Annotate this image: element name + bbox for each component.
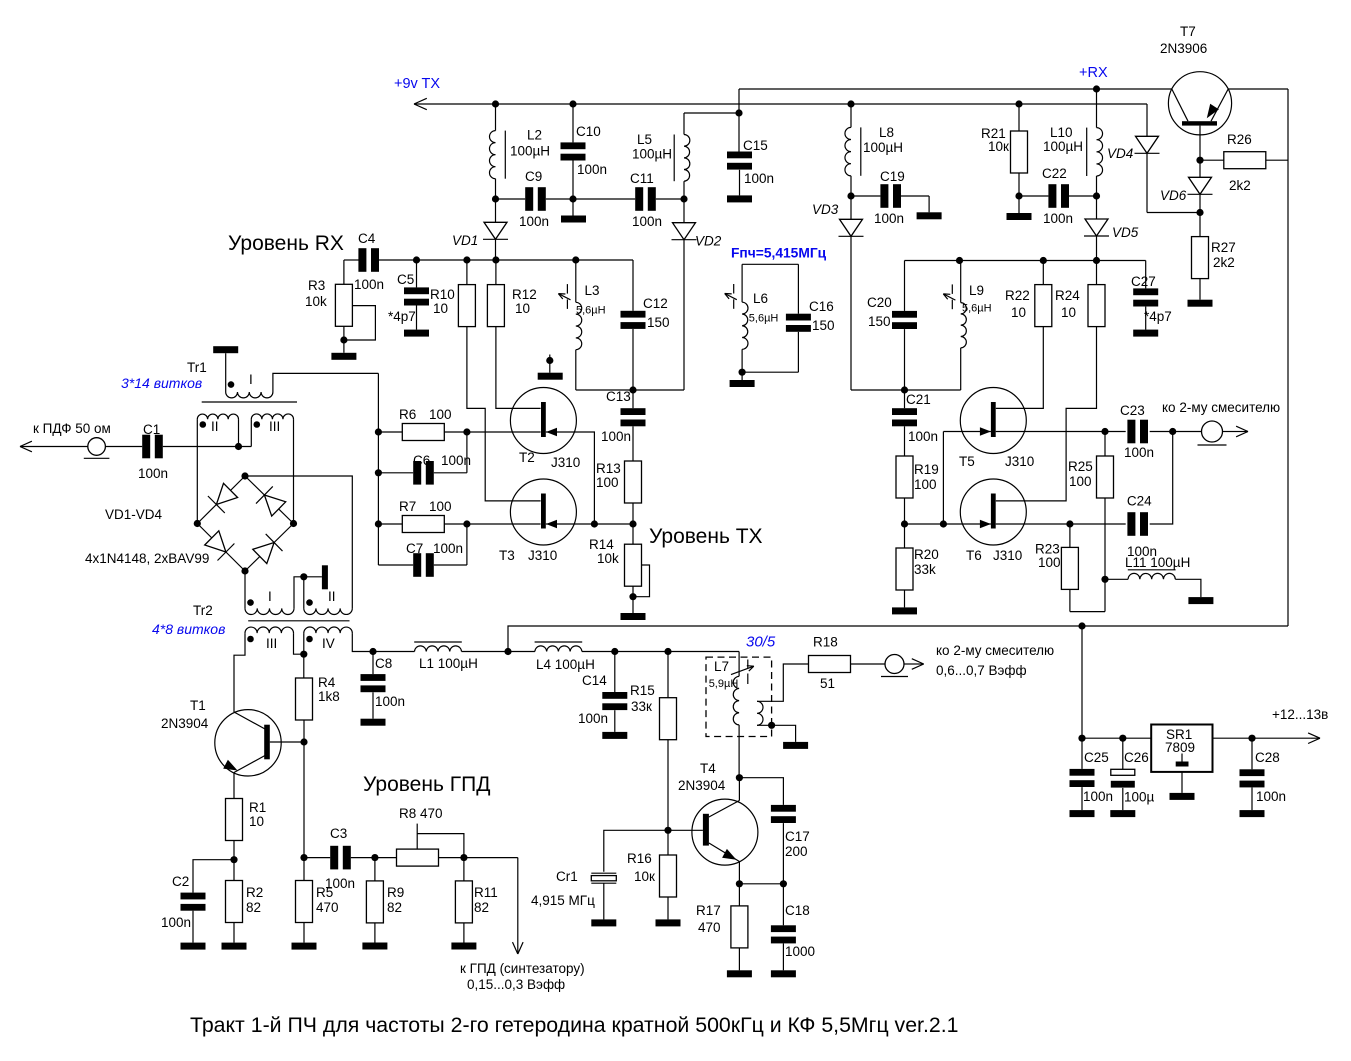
diode ring sides	[197, 476, 245, 524]
resistor R7	[402, 516, 444, 533]
svg-text:100n: 100n	[1256, 789, 1286, 804]
wire +12V to SR1 input	[1081, 626, 1083, 738]
capacitor C19	[851, 195, 880, 197]
resistor R9	[374, 858, 376, 881]
svg-text:R22: R22	[1005, 288, 1030, 303]
resistor R1	[233, 773, 235, 799]
junction L6 ground	[739, 369, 746, 376]
svg-text:150: 150	[868, 314, 891, 329]
svg-text:100n: 100n	[375, 694, 405, 709]
svg-text:C8: C8	[375, 656, 392, 671]
svg-text:C12: C12	[643, 296, 668, 311]
svg-text:33k: 33k	[914, 562, 936, 577]
capacitor C6	[466, 432, 468, 473]
junction C11/L5/VD2	[680, 195, 687, 202]
wire R7 line y=524	[378, 523, 540, 525]
svg-text:R26: R26	[1227, 132, 1252, 147]
svg-text:L7: L7	[714, 659, 729, 674]
svg-text:C7: C7	[406, 541, 423, 556]
wire +9v TX rail with left arrow	[414, 103, 1147, 105]
wire T3 gate line to R13/R14 node	[546, 523, 633, 525]
junction +12V rail / SR1	[1078, 622, 1085, 629]
resistor R27	[1199, 213, 1201, 237]
inductor L4	[508, 651, 535, 653]
svg-text:82: 82	[246, 900, 261, 915]
svg-text:IV: IV	[322, 636, 335, 651]
transformer Tr2 winding IV	[304, 627, 353, 633]
capacitor C3	[304, 857, 330, 859]
svg-text:100n: 100n	[354, 277, 384, 292]
svg-text:VD1: VD1	[452, 233, 478, 248]
capacitor C27	[1145, 261, 1147, 289]
svg-text:I: I	[268, 589, 272, 604]
ring diode top-left	[216, 483, 237, 504]
svg-text:R12: R12	[512, 287, 537, 302]
capacitor C1	[142, 435, 150, 459]
capacitor C26 electrolytic	[1122, 738, 1124, 769]
svg-text:Tr2: Tr2	[193, 603, 213, 618]
svg-text:R25: R25	[1068, 459, 1093, 474]
svg-text:4x1N4148, 2xBAV99: 4x1N4148, 2xBAV99	[85, 551, 209, 566]
svg-text:T4: T4	[700, 761, 716, 776]
svg-text:R19: R19	[914, 462, 939, 477]
inductor L5	[683, 113, 685, 135]
svg-text:C25: C25	[1084, 750, 1109, 765]
svg-text:1000: 1000	[785, 944, 815, 959]
diode VD6	[1199, 160, 1201, 177]
resistor R19	[896, 456, 913, 498]
svg-text:T2: T2	[519, 450, 535, 465]
inductor L7 secondary	[757, 701, 763, 725]
junction C10 ground node	[569, 195, 576, 202]
svg-text:10k: 10k	[597, 551, 619, 566]
junction T4 base / R16	[664, 827, 671, 834]
capacitor C17	[771, 805, 796, 812]
svg-text:470: 470	[698, 920, 721, 935]
capacitor C11	[656, 198, 684, 200]
svg-text:10: 10	[249, 814, 264, 829]
svg-text:III: III	[266, 636, 277, 651]
svg-text:VD2: VD2	[695, 234, 722, 249]
svg-text:T5: T5	[959, 454, 975, 469]
svg-text:100: 100	[429, 407, 452, 422]
svg-text:Уровень TX: Уровень TX	[649, 525, 763, 548]
svg-text:2N3904: 2N3904	[161, 716, 209, 731]
transistor T2 J310	[510, 388, 576, 454]
junction R25	[1101, 428, 1108, 435]
svg-text:R14: R14	[589, 537, 614, 552]
svg-text:C17: C17	[785, 829, 810, 844]
svg-text:150: 150	[812, 318, 835, 333]
svg-text:100: 100	[596, 475, 619, 490]
svg-text:1k8: 1k8	[318, 689, 340, 704]
junction R11	[460, 854, 467, 861]
svg-text:7809: 7809	[1165, 740, 1195, 755]
svg-text:30/5: 30/5	[746, 634, 776, 651]
wire VD3 to tank bottom	[851, 389, 904, 391]
svg-text:100n: 100n	[1124, 445, 1154, 460]
capacitor C9	[496, 198, 526, 200]
svg-text:J310: J310	[551, 455, 580, 470]
junction VD6/VD4/R27	[1196, 209, 1203, 216]
svg-text:100n: 100n	[577, 162, 607, 177]
svg-text:R6: R6	[399, 407, 416, 422]
wire tank bottom line	[576, 389, 684, 391]
capacitor C23	[1127, 420, 1135, 444]
ground under L6 tank	[741, 372, 743, 380]
svg-text:Cr1: Cr1	[556, 869, 578, 884]
wire R4 node down to C3/R5	[303, 742, 305, 858]
transformer Tr1 core	[202, 401, 297, 403]
transistor T7 2N3906	[1168, 72, 1231, 135]
capacitor C24	[1127, 512, 1135, 536]
svg-text:100n: 100n	[744, 171, 774, 186]
svg-text:III: III	[269, 419, 280, 434]
transistor T5 J310	[960, 388, 1026, 454]
svg-text:5,9µH: 5,9µH	[709, 678, 739, 690]
svg-text:100n: 100n	[161, 915, 191, 930]
svg-text:10к: 10к	[988, 139, 1009, 154]
wire ring bottom to Tr2 winding I	[244, 571, 246, 608]
wire collector to C17	[739, 778, 783, 805]
svg-text:100µH: 100µH	[510, 144, 550, 159]
diode VD1	[495, 199, 497, 222]
svg-text:J310: J310	[1005, 454, 1034, 469]
svg-text:+12...13в: +12...13в	[1272, 707, 1328, 722]
svg-text:C4: C4	[358, 231, 376, 246]
capacitor C28	[1251, 738, 1253, 769]
junction T4 collector	[736, 774, 743, 781]
svg-text:L5: L5	[637, 132, 652, 147]
diode VD5	[1096, 196, 1098, 219]
svg-text:+RX: +RX	[1079, 65, 1108, 81]
transistor T3 J310	[510, 479, 576, 545]
svg-text:470: 470	[316, 900, 339, 915]
inductor L8	[850, 104, 852, 127]
resistor R6	[402, 424, 444, 441]
svg-text:100: 100	[914, 477, 937, 492]
ring diode right-top	[264, 495, 285, 516]
svg-text:R27: R27	[1211, 240, 1236, 255]
svg-text:R16: R16	[627, 851, 652, 866]
svg-text:J310: J310	[528, 548, 557, 563]
wire SR1 output	[1213, 737, 1312, 739]
inductor L9 tunable	[960, 261, 962, 303]
junction R19/R20/T6 gate	[901, 520, 908, 527]
inductor L6 tunable	[741, 264, 743, 302]
svg-text:4*8 витков: 4*8 витков	[152, 621, 225, 637]
junction T7 base/R26	[1196, 157, 1203, 164]
wire L5 top to C15 node	[684, 112, 739, 114]
svg-text:VD5: VD5	[1112, 225, 1139, 240]
svg-text:Fпч=5,415МГц: Fпч=5,415МГц	[731, 246, 827, 261]
svg-text:R9: R9	[387, 885, 404, 900]
resistor R3 trimmer	[343, 260, 345, 284]
svg-text:R2: R2	[246, 885, 263, 900]
wire emitter to C18 node	[739, 883, 783, 885]
resistor R20	[904, 524, 906, 548]
svg-text:C11: C11	[630, 171, 654, 186]
svg-text:R4: R4	[318, 675, 336, 690]
svg-text:100: 100	[429, 499, 452, 514]
resistor R13	[625, 461, 642, 503]
junction R1/R2/C2	[230, 856, 237, 863]
resistor R25	[1104, 432, 1106, 457]
junction T1 base / R4	[300, 738, 307, 745]
resistor R14 trimmer	[625, 544, 642, 586]
svg-text:51: 51	[820, 676, 835, 691]
svg-text:100n: 100n	[1043, 211, 1073, 226]
svg-text:100n: 100n	[1083, 789, 1113, 804]
resistor R10	[466, 260, 468, 285]
junction C21 node	[901, 386, 908, 393]
svg-text:100µH: 100µH	[1043, 139, 1083, 154]
junction R15	[664, 648, 671, 655]
junction C25	[1078, 735, 1085, 742]
svg-text:100µ: 100µ	[1124, 790, 1155, 805]
svg-text:VD1-VD4: VD1-VD4	[105, 507, 163, 522]
svg-text:C2: C2	[172, 874, 189, 889]
svg-text:R8 470: R8 470	[399, 806, 443, 821]
resistor R5	[303, 858, 305, 881]
svg-text:R10: R10	[430, 287, 455, 302]
resistor R8 trimmer	[375, 857, 397, 859]
junction L11	[1101, 576, 1108, 583]
svg-text:L1 100µH: L1 100µH	[419, 656, 478, 671]
svg-text:C3: C3	[330, 826, 347, 841]
svg-text:5,6µH: 5,6µH	[576, 305, 606, 317]
diode VD3	[850, 196, 852, 219]
wire/arrow to synthesizer	[517, 858, 519, 954]
transformer Tr1 winding III	[251, 414, 293, 419]
svg-text:T3: T3	[499, 548, 515, 563]
diode VD4	[1146, 104, 1148, 136]
svg-text:100n: 100n	[908, 429, 938, 444]
svg-text:100n: 100n	[441, 453, 471, 468]
ring diode left-bottom	[205, 531, 226, 552]
capacitor C20	[904, 261, 906, 311]
svg-text:C23: C23	[1120, 403, 1145, 418]
output connector to 2nd mixer	[885, 655, 904, 674]
svg-text:II: II	[328, 589, 336, 604]
svg-text:C22: C22	[1042, 166, 1067, 181]
svg-text:0,6...0,7 Вэфф: 0,6...0,7 Вэфф	[936, 663, 1027, 678]
svg-text:2k2: 2k2	[1229, 178, 1251, 193]
junction R6/C6	[463, 428, 470, 435]
svg-text:I: I	[249, 372, 253, 387]
capacitor C13	[632, 390, 634, 408]
inductor L3 tunable	[575, 260, 577, 302]
resistor R15	[667, 652, 669, 698]
wire R23/R25 bottoms join	[1070, 611, 1105, 613]
inductor L10	[1096, 89, 1098, 128]
wire +12V riser and rail	[508, 626, 1288, 652]
svg-text:10: 10	[1011, 305, 1026, 320]
svg-text:2N3904: 2N3904	[678, 778, 726, 793]
capacitor C22	[1019, 195, 1048, 197]
svg-text:C19: C19	[880, 169, 905, 184]
svg-text:100n: 100n	[601, 429, 631, 444]
transformer Tr2 winding II	[304, 608, 353, 614]
capacitor C21	[904, 390, 906, 408]
transformer L7 shield box dashed	[706, 657, 772, 736]
wire +RX rail	[739, 88, 1172, 90]
svg-text:150: 150	[647, 315, 670, 330]
resistor R24	[1096, 261, 1098, 285]
svg-text:II: II	[211, 419, 219, 434]
svg-text:4,915 МГц: 4,915 МГц	[531, 893, 595, 908]
svg-text:T1: T1	[190, 698, 206, 713]
svg-text:0,15...0,3 Вэфф: 0,15...0,3 Вэфф	[467, 977, 565, 992]
wire R6 line y=432	[378, 431, 540, 433]
svg-text:33к: 33к	[631, 699, 652, 714]
svg-text:*4p7: *4p7	[1144, 309, 1172, 324]
svg-text:C6: C6	[413, 453, 430, 468]
svg-text:C9: C9	[525, 169, 542, 184]
resistor R4	[296, 678, 313, 720]
junction +RX / L10	[1093, 85, 1100, 92]
transformer Tr2 winding III	[245, 627, 294, 633]
junction L1/L4/+12V riser	[504, 648, 511, 655]
wire T6 source line to C24	[996, 523, 1126, 525]
wire RX bias line right	[905, 260, 1146, 262]
capacitor C14	[614, 652, 616, 693]
wire T5 source line to C23	[996, 431, 1126, 433]
svg-text:L4 100µH: L4 100µH	[536, 657, 595, 672]
transformer Tr1 winding II	[197, 414, 238, 419]
wire R12 to T2 drain	[496, 327, 541, 409]
svg-text:10k: 10k	[305, 294, 327, 309]
transistor T1 2N3904	[215, 710, 281, 776]
resistor R26	[1200, 159, 1224, 161]
svg-text:C13: C13	[606, 389, 631, 404]
svg-text:ко 2-му смесителю: ко 2-му смесителю	[1162, 400, 1280, 415]
svg-text:VD6: VD6	[1160, 188, 1187, 203]
svg-text:82: 82	[474, 900, 489, 915]
transistor T4 2N3904	[692, 799, 758, 865]
junction L5/C15 node	[735, 109, 742, 116]
svg-text:C15: C15	[743, 138, 768, 153]
svg-text:к ПДФ 50 ом: к ПДФ 50 ом	[33, 421, 111, 436]
svg-text:100n: 100n	[578, 711, 608, 726]
svg-text:C1: C1	[143, 422, 160, 437]
resistor R22	[1042, 261, 1044, 285]
svg-text:R24: R24	[1055, 288, 1080, 303]
svg-text:100n: 100n	[632, 214, 662, 229]
svg-text:R13: R13	[596, 461, 621, 476]
svg-text:Уровень ГПД: Уровень ГПД	[363, 773, 490, 796]
junction C28	[1248, 735, 1255, 742]
svg-text:2N3906: 2N3906	[1160, 41, 1207, 56]
svg-text:Тракт 1-й ПЧ для частоты 2-го: Тракт 1-й ПЧ для частоты 2-го гетеродина…	[190, 1013, 959, 1037]
svg-text:L8: L8	[879, 125, 894, 140]
resistor R2	[226, 881, 243, 923]
junction C3/R5	[300, 854, 307, 861]
capacitor C2	[193, 860, 234, 893]
svg-text:L2: L2	[527, 128, 542, 143]
junction T4 emitter	[736, 880, 743, 887]
svg-text:L9: L9	[969, 283, 984, 298]
wire L1 line	[373, 651, 415, 653]
svg-text:100: 100	[1038, 555, 1061, 570]
ground above Tr1	[213, 346, 238, 353]
resistor R16	[667, 830, 669, 855]
svg-text:100n: 100n	[138, 466, 168, 481]
regulator SR1 7809	[1151, 725, 1212, 772]
wire tank bottom right	[905, 389, 961, 391]
wire R10 to T3 drain	[467, 327, 541, 501]
svg-text:5,6µH: 5,6µH	[749, 313, 779, 325]
svg-text:C21: C21	[906, 392, 931, 407]
shield ground near T2	[549, 355, 551, 373]
svg-text:к ГПД (синтезатору): к ГПД (синтезатору)	[460, 961, 585, 976]
output connector to 2nd mixer (top)	[1202, 421, 1223, 442]
svg-text:L6: L6	[753, 291, 768, 306]
resistor R18	[809, 656, 851, 673]
wire ring top to Tr2 winding II	[245, 476, 352, 608]
wire right edge vertical to +12V rail	[1287, 89, 1289, 626]
ground under C10	[572, 199, 574, 216]
svg-text:J310: J310	[993, 548, 1022, 563]
svg-text:VD4: VD4	[1107, 146, 1133, 161]
wire C15 riser	[738, 89, 740, 152]
svg-text:VD3: VD3	[812, 202, 839, 217]
capacitor C18	[782, 884, 784, 926]
transistor T6 J310	[960, 479, 1026, 545]
svg-text:R1: R1	[249, 800, 266, 815]
svg-text:C18: C18	[785, 903, 810, 918]
svg-text:C14: C14	[582, 673, 607, 688]
svg-text:R15: R15	[630, 683, 655, 698]
svg-text:R20: R20	[914, 547, 939, 562]
svg-text:100n: 100n	[519, 214, 549, 229]
svg-text:200: 200	[785, 844, 808, 859]
svg-text:+9v TX: +9v TX	[394, 76, 440, 92]
svg-text:R17: R17	[696, 903, 721, 918]
resistor R21	[1018, 104, 1020, 131]
svg-text:R7: R7	[399, 499, 416, 514]
diode VD2	[683, 199, 685, 223]
wire left bus from Tr1	[377, 373, 379, 565]
svg-text:C28: C28	[1255, 750, 1280, 765]
wire L6/C16 tank top	[742, 263, 798, 265]
capacitor C10	[572, 104, 574, 142]
capacitor C25	[1081, 738, 1083, 769]
svg-text:100n: 100n	[874, 211, 904, 226]
svg-text:L11 100µH: L11 100µH	[1125, 555, 1190, 570]
wire T2 gate to T3 gate line	[546, 432, 595, 524]
wire Tr2 center tap ground	[294, 577, 304, 609]
inductor L2	[495, 104, 497, 131]
junction Tr1 II/III center tap	[235, 443, 242, 450]
diode ring nodes	[241, 472, 248, 479]
svg-text:100n: 100n	[433, 541, 463, 556]
junction R23	[1066, 520, 1073, 527]
svg-text:T7: T7	[1180, 24, 1196, 39]
svg-text:C20: C20	[867, 295, 892, 310]
capacitor C15	[727, 152, 752, 159]
svg-text:10к: 10к	[634, 869, 655, 884]
svg-text:100µH: 100µH	[632, 147, 672, 162]
inductor L11	[1105, 578, 1128, 580]
svg-text:10: 10	[515, 301, 530, 316]
svg-text:Tr1: Tr1	[187, 360, 207, 375]
junction C23/C24 output	[1169, 428, 1176, 435]
svg-text:C5: C5	[397, 272, 414, 287]
svg-text:5,6µH: 5,6µH	[962, 303, 992, 315]
transformer Tr2 core	[248, 620, 349, 622]
svg-text:L10: L10	[1050, 125, 1073, 140]
